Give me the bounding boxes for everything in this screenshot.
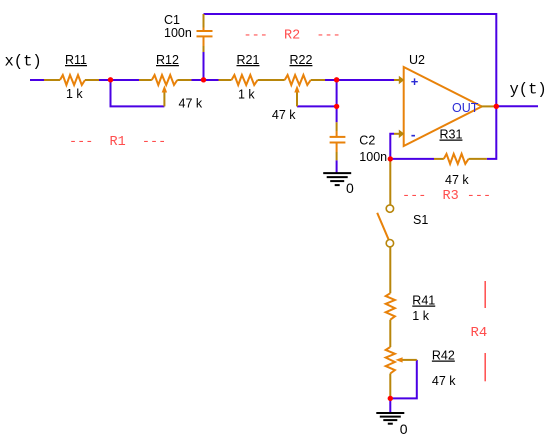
label U2 [409, 53, 425, 67]
potentiometer R22 wiper [294, 85, 299, 106]
label R4 group dash top [484, 281, 486, 308]
label R22 [290, 53, 313, 67]
wire top feedback rail [204, 14, 497, 159]
resistor R41 lead bottom [389, 320, 391, 347]
resistor R11 lead left [44, 79, 60, 81]
switch S1 blade [377, 213, 388, 240]
potentiometer R42 wiper [395, 357, 416, 362]
wire C1 bottom [203, 51, 205, 80]
svg-text:S1: S1 [413, 213, 428, 227]
svg-text:1 k: 1 k [66, 87, 83, 101]
op-amp plus sign [411, 74, 419, 89]
svg-text:R12: R12 [156, 53, 179, 67]
svg-text:R11: R11 [65, 53, 87, 67]
label 0 bottom [400, 421, 408, 437]
switch S1 lead bottom [389, 247, 391, 293]
value R22 47 k [272, 108, 296, 122]
label C1 [164, 13, 180, 27]
ground 0 bottom [376, 413, 404, 424]
svg-text:R4: R4 [471, 325, 488, 341]
op-amp U2 minus pin [394, 130, 404, 139]
resistor R31 [444, 154, 469, 164]
resistor R21 [232, 75, 258, 85]
label 0 under C2 [346, 180, 354, 196]
wire R2 wiper link [297, 105, 337, 107]
op-amp minus sign [411, 127, 416, 143]
label R1 group [69, 135, 166, 150]
label R31 [440, 128, 463, 142]
junction node 3 [334, 77, 339, 82]
potentiometer R12 wiper [162, 85, 167, 106]
svg-text:--- R3 ---: --- R3 --- [402, 189, 491, 204]
svg-text:-: - [411, 127, 416, 143]
capacitor C2 lead top [336, 122, 338, 131]
wire node F to ground [389, 398, 391, 412]
svg-text:47 k: 47 k [272, 108, 296, 122]
junction node 2 [201, 77, 206, 82]
capacitor C1 [197, 28, 213, 47]
wire input stub [30, 79, 44, 81]
wire node E to R31 [390, 158, 434, 160]
ground 0 under C2 [323, 173, 351, 185]
capacitor C1 lead top [203, 14, 205, 28]
switch S1 lead top [389, 161, 391, 205]
capacitor C2 lead bottom [336, 152, 338, 160]
potentiometer R12 [152, 75, 178, 85]
svg-text:y(t): y(t) [510, 81, 547, 99]
value C1 100n [164, 26, 192, 40]
svg-text:U2: U2 [409, 53, 425, 67]
wire node A segment [99, 79, 140, 81]
resistor R21 lead right [258, 79, 285, 81]
label R21 [237, 53, 260, 67]
label C2 [359, 134, 375, 148]
resistor R31 lead left [434, 158, 444, 160]
switch S1 terminal top [386, 205, 393, 212]
junction node 4 [334, 104, 339, 109]
op-amp U2 [404, 67, 482, 146]
svg-text:1 k: 1 k [412, 309, 429, 323]
wire node B segment [192, 79, 219, 81]
potentiometer R12 lead left [139, 79, 152, 81]
wire node C to node D [336, 80, 338, 106]
label R42 [432, 349, 455, 363]
svg-text:OUT: OUT [452, 101, 479, 115]
label R12 [156, 53, 179, 67]
svg-text:--- R2 ---: --- R2 --- [244, 29, 341, 44]
node y(t) label [510, 81, 547, 99]
potentiometer R22 lead right [311, 79, 325, 81]
svg-text:C2: C2 [359, 134, 375, 148]
svg-text:47 k: 47 k [432, 374, 456, 388]
wire node C segment [325, 79, 394, 81]
svg-text:47 k: 47 k [445, 173, 469, 187]
svg-text:R22: R22 [290, 53, 313, 67]
resistor R41 [386, 293, 395, 320]
svg-text:47 k: 47 k [179, 97, 203, 111]
resistor R21 lead left [219, 79, 232, 81]
potentiometer R12 lead right [177, 79, 191, 81]
value R11 1 k [66, 87, 83, 101]
potentiometer R22 [285, 75, 311, 85]
label R41 [412, 294, 435, 308]
svg-text:100n: 100n [164, 26, 192, 40]
svg-text:0: 0 [400, 421, 408, 437]
svg-text:R21: R21 [237, 53, 260, 67]
node x(t) label [5, 53, 42, 71]
junction node 1 [108, 77, 113, 82]
switch S1 terminal bottom [386, 240, 393, 247]
op-amp U2 output pin [481, 105, 494, 107]
svg-text:--- R1 ---: --- R1 --- [69, 135, 166, 150]
svg-text:100n: 100n [359, 150, 387, 164]
svg-text:+: + [411, 74, 419, 89]
wire R1 wiper bypass [111, 80, 165, 106]
wire minus input [390, 134, 394, 159]
op-amp U2 plus pin [394, 76, 404, 85]
potentiometer R42 lead bottom [389, 374, 391, 399]
svg-text:C1: C1 [164, 13, 180, 27]
value R12 47 k [179, 97, 203, 111]
svg-text:R31: R31 [440, 128, 463, 142]
potentiometer R42 [386, 347, 395, 374]
capacitor C1 lead bottom [203, 46, 205, 52]
wire node D to C2 [336, 106, 338, 122]
svg-text:x(t): x(t) [5, 53, 42, 71]
wire C2 to ground [336, 160, 338, 172]
value R21 1 k [238, 88, 255, 102]
resistor R11 [60, 75, 85, 85]
value R41 1 k [412, 309, 429, 323]
value R31 47 k [445, 173, 469, 187]
value R42 47 k [432, 374, 456, 388]
resistor R31 lead right [469, 158, 487, 160]
svg-text:1 k: 1 k [238, 88, 255, 102]
junction node 5 [388, 156, 393, 161]
label R4 group [471, 325, 488, 341]
svg-text:R41: R41 [412, 294, 435, 308]
label R2 group [244, 29, 341, 44]
label R4 group dash bottom [484, 353, 486, 381]
capacitor C2 [330, 131, 346, 152]
value C2 100n [359, 150, 387, 164]
junction node 7 [388, 396, 393, 401]
wire output stub [496, 105, 538, 107]
svg-text:R42: R42 [432, 349, 455, 363]
label OUT [452, 101, 479, 115]
label R3 group [402, 189, 491, 204]
svg-text:0: 0 [346, 180, 354, 196]
wire R4 wiper loop [390, 360, 417, 399]
junction node 6 [494, 104, 499, 109]
label R11 [65, 53, 87, 67]
label S1 [413, 213, 428, 227]
resistor R11 lead right [85, 79, 99, 81]
